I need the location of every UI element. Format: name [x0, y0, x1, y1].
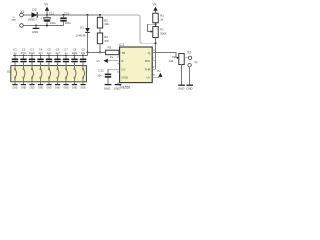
- wire R1 to P1: [155, 23, 157, 27]
- wire gray supply rail to right: [100, 15, 156, 43]
- svg-text:1N5817: 1N5817: [28, 18, 38, 22]
- svg-text:U+: U+: [146, 76, 150, 80]
- svg-text:100n: 100n: [65, 21, 71, 25]
- capacitor C11: [41, 12, 57, 26]
- ground (P2): [178, 85, 185, 90]
- wire TR run: [88, 51, 106, 53]
- ground (C6): [55, 85, 60, 90]
- svg-text:Vx: Vx: [153, 2, 157, 6]
- wire P1 wiper loop: [148, 24, 156, 31]
- svg-text:C9: C9: [81, 47, 85, 51]
- supply arrow Vx (R1 top): [153, 2, 158, 13]
- terminal X1 bottom: [20, 24, 24, 28]
- supply arrow Vx at pin 8: [152, 69, 162, 77]
- svg-text:47k: 47k: [104, 39, 109, 43]
- capacitor C3: [29, 47, 36, 65]
- node junction dot: [46, 14, 48, 16]
- svg-text:C5: C5: [47, 47, 51, 51]
- capacitor C4: [37, 47, 43, 65]
- svg-text:GND: GND: [187, 87, 193, 91]
- capacitor C2: [20, 47, 27, 65]
- node TR net: [87, 51, 89, 53]
- svg-text:GND: GND: [38, 87, 43, 89]
- svg-text:GND: GND: [114, 86, 120, 90]
- wire capacitor bank rail: [13, 54, 87, 56]
- wire DIS stub: [152, 60, 155, 62]
- potentiometer P1: [153, 27, 167, 38]
- capacitor C7: [63, 47, 69, 65]
- svg-text:10n: 10n: [97, 74, 102, 78]
- resistor R4: [97, 33, 109, 44]
- ground (C5): [46, 85, 51, 90]
- svg-text:GND: GND: [32, 30, 38, 34]
- wire between R2 and R4: [99, 28, 101, 33]
- wire X2 ground terminal down: [189, 67, 191, 85]
- supply arrow Vx at reset pin: [96, 59, 119, 63]
- ground (X2): [186, 85, 193, 90]
- svg-text:C11: C11: [49, 12, 55, 16]
- svg-text:GND: GND: [55, 87, 60, 89]
- svg-text:TR: TR: [121, 51, 125, 55]
- wire top rail left: [23, 14, 31, 16]
- svg-text:500k: 500k: [160, 31, 167, 35]
- supply arrow Vx (battery): [44, 2, 49, 15]
- ground (C4): [38, 85, 43, 90]
- switch S1 section 5: [48, 66, 50, 85]
- svg-text:Vx: Vx: [157, 69, 161, 73]
- svg-text:100u: 100u: [50, 21, 56, 25]
- ground (C2): [21, 85, 26, 90]
- svg-text:C4: C4: [39, 47, 43, 51]
- ground (C1): [12, 85, 17, 90]
- wire P2 to X2: [184, 57, 188, 59]
- svg-text:10k: 10k: [169, 59, 174, 63]
- diode D1: [76, 14, 90, 55]
- wire top rail mid: [38, 14, 103, 16]
- terminal X2 signal: [188, 56, 191, 59]
- wire P2 bottom to ground: [181, 65, 183, 85]
- svg-text:C6: C6: [56, 47, 60, 51]
- svg-text:D2: D2: [32, 8, 36, 12]
- svg-text:D1: D1: [80, 26, 84, 30]
- svg-text:Vx: Vx: [44, 2, 48, 6]
- svg-text:Vy: Vy: [194, 60, 198, 64]
- ground (C9): [80, 85, 85, 90]
- ground (battery): [32, 26, 39, 35]
- svg-text:GND: GND: [104, 86, 110, 90]
- svg-text:GND: GND: [121, 76, 127, 80]
- op IC1 NE555 box: [119, 43, 152, 90]
- diode D2: [28, 8, 38, 22]
- capacitor C5: [46, 47, 52, 65]
- wire P1 bottom to DIS/THR: [155, 38, 157, 70]
- terminal X2 ground: [188, 63, 191, 66]
- wire Q output run: [152, 52, 179, 57]
- switch S1 section 2: [23, 66, 25, 85]
- switch S1 section 3: [31, 66, 33, 85]
- wire THR stub: [152, 68, 155, 70]
- svg-text:DIS: DIS: [145, 59, 150, 63]
- resistor R2: [97, 14, 109, 28]
- svg-text:C10: C10: [64, 12, 70, 16]
- resistor R1: [153, 13, 164, 23]
- ground (C12): [104, 85, 111, 91]
- switch S1 section 9: [82, 66, 84, 85]
- capacitor C8: [71, 47, 78, 65]
- capacitor C9: [80, 47, 86, 65]
- wire bottom battery rail: [23, 25, 63, 27]
- svg-text:GND: GND: [12, 87, 17, 89]
- svg-text:Vx: Vx: [96, 59, 100, 63]
- svg-text:IC1: IC1: [119, 43, 124, 47]
- svg-text:GND: GND: [72, 87, 77, 89]
- svg-text:C8: C8: [73, 47, 77, 51]
- ground (C7): [63, 85, 68, 90]
- capacitor C6: [54, 47, 60, 65]
- svg-text:10k: 10k: [104, 22, 109, 26]
- svg-text:GND: GND: [178, 87, 184, 91]
- resistor R3: [106, 45, 119, 59]
- svg-text:1N4148: 1N4148: [76, 34, 86, 38]
- wire R4 bottom to node: [99, 44, 101, 53]
- svg-text:CV: CV: [121, 68, 125, 72]
- svg-text:C7: C7: [64, 47, 68, 51]
- svg-text:GND: GND: [80, 87, 85, 89]
- switch S1 section 8: [74, 66, 76, 85]
- switch S1 section 1: [14, 66, 16, 85]
- svg-text:C12: C12: [98, 68, 104, 72]
- svg-text:R3: R3: [108, 45, 112, 49]
- switch S1 box: [11, 66, 87, 82]
- potentiometer P2: [169, 54, 185, 65]
- switch S1 section 7: [65, 66, 67, 85]
- svg-text:THR: THR: [145, 68, 151, 72]
- svg-text:C2: C2: [22, 47, 26, 51]
- svg-text:GND: GND: [46, 87, 51, 89]
- ground (C8): [72, 85, 77, 90]
- svg-text:GND: GND: [63, 87, 68, 89]
- svg-text:S1: S1: [7, 69, 11, 73]
- svg-text:GND: GND: [21, 87, 26, 89]
- svg-text:X2: X2: [187, 50, 191, 54]
- switch S1 section 4: [40, 66, 42, 85]
- svg-text:NE555: NE555: [120, 86, 130, 90]
- capacitor C10: [60, 12, 71, 26]
- ground (IC pin 1): [114, 83, 121, 91]
- svg-text:GND: GND: [29, 87, 34, 89]
- capacitor C12 at CV: [97, 68, 119, 84]
- svg-text:AAA: AAA: [11, 18, 16, 21]
- capacitor C1: [12, 47, 18, 65]
- ground (C3): [29, 85, 34, 90]
- switch S1 section 6: [57, 66, 59, 85]
- terminal X1 top: [20, 13, 24, 17]
- svg-text:C3: C3: [30, 47, 34, 51]
- svg-text:R: R: [121, 59, 123, 63]
- svg-text:C1: C1: [13, 47, 17, 51]
